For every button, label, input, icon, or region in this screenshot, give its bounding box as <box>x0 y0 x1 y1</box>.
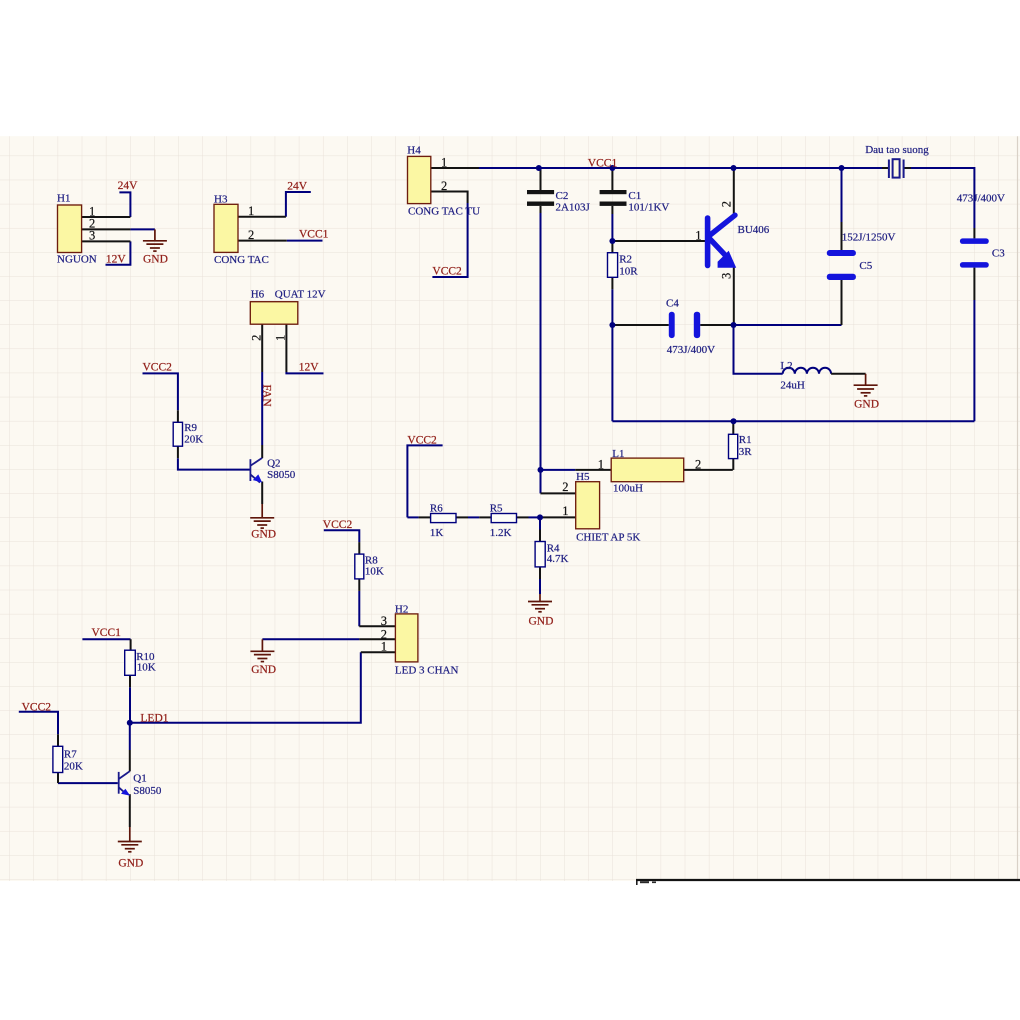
svg-text:H5: H5 <box>576 471 590 483</box>
svg-text:NGUON: NGUON <box>57 254 97 266</box>
svg-text:L1: L1 <box>612 448 624 460</box>
svg-text:H1: H1 <box>57 193 70 205</box>
svg-text:2: 2 <box>562 480 568 494</box>
svg-text:10K: 10K <box>137 662 156 674</box>
svg-text:12V: 12V <box>299 362 320 374</box>
svg-text:GND: GND <box>529 615 554 627</box>
svg-text:C4: C4 <box>666 298 679 310</box>
svg-text:100uH: 100uH <box>613 482 643 494</box>
svg-text:CHIET AP 5K: CHIET AP 5K <box>576 532 640 544</box>
svg-text:24V: 24V <box>287 181 308 193</box>
svg-text:1: 1 <box>562 504 568 518</box>
svg-text:1: 1 <box>248 204 254 218</box>
svg-text:VCC2: VCC2 <box>432 266 462 278</box>
svg-text:H3: H3 <box>214 194 228 206</box>
svg-text:1: 1 <box>273 335 287 341</box>
svg-text:Q1: Q1 <box>133 773 146 785</box>
svg-text:2A103J: 2A103J <box>556 202 591 214</box>
svg-text:2: 2 <box>250 335 264 341</box>
svg-text:BU406: BU406 <box>738 224 770 236</box>
svg-text:R6: R6 <box>430 502 443 514</box>
svg-text:473J/400V: 473J/400V <box>957 192 1005 204</box>
svg-text:GND: GND <box>143 253 168 265</box>
svg-text:C3: C3 <box>992 248 1005 260</box>
svg-text:VCC2: VCC2 <box>323 519 353 531</box>
svg-text:3: 3 <box>89 229 95 243</box>
svg-text:VCC2: VCC2 <box>22 702 52 714</box>
svg-text:VCC2: VCC2 <box>407 435 437 447</box>
svg-text:H4: H4 <box>407 145 421 157</box>
svg-text:H6: H6 <box>251 289 265 301</box>
svg-text:3R: 3R <box>739 446 753 458</box>
svg-text:1K: 1K <box>430 527 444 539</box>
svg-text:10R: 10R <box>619 265 638 277</box>
svg-text:L2: L2 <box>780 360 792 372</box>
svg-text:1: 1 <box>598 457 604 471</box>
svg-text:24uH: 24uH <box>780 380 805 392</box>
svg-text:1.2K: 1.2K <box>490 527 512 539</box>
svg-text:C1: C1 <box>628 190 641 202</box>
svg-text:3: 3 <box>381 614 387 628</box>
svg-text:GND: GND <box>251 664 276 676</box>
svg-text:LED 3 CHAN: LED 3 CHAN <box>395 665 459 677</box>
svg-text:1: 1 <box>381 639 387 653</box>
svg-text:2: 2 <box>720 201 734 207</box>
svg-text:GND: GND <box>854 398 879 410</box>
svg-text:R5: R5 <box>490 502 503 514</box>
svg-text:VCC1: VCC1 <box>92 627 122 639</box>
svg-text:2: 2 <box>695 457 701 471</box>
svg-text:Dau tao suong: Dau tao suong <box>865 144 929 156</box>
svg-text:S8050: S8050 <box>267 469 296 481</box>
svg-text:C5: C5 <box>859 260 872 272</box>
svg-text:2: 2 <box>441 179 447 193</box>
svg-text:VCC1: VCC1 <box>299 229 329 241</box>
svg-text:R2: R2 <box>619 254 632 266</box>
svg-text:1: 1 <box>441 155 447 169</box>
svg-text:101/1KV: 101/1KV <box>628 202 669 214</box>
svg-text:2: 2 <box>248 228 254 242</box>
svg-text:S8050: S8050 <box>133 785 162 797</box>
svg-text:VCC2: VCC2 <box>143 362 173 374</box>
svg-text:20K: 20K <box>64 760 83 772</box>
svg-text:R7: R7 <box>64 749 77 761</box>
svg-text:Q2: Q2 <box>267 458 280 470</box>
svg-text:152J/1250V: 152J/1250V <box>842 232 896 244</box>
svg-text:GND: GND <box>118 857 143 869</box>
svg-text:FAN: FAN <box>261 385 273 408</box>
svg-text:R9: R9 <box>184 422 197 434</box>
svg-text:20K: 20K <box>184 434 203 446</box>
svg-text:24V: 24V <box>118 180 139 192</box>
svg-text:4.7K: 4.7K <box>547 553 569 565</box>
svg-text:473J/400V: 473J/400V <box>667 344 715 356</box>
svg-text:LED1: LED1 <box>140 713 168 725</box>
svg-text:R1: R1 <box>739 434 752 446</box>
svg-text:GND: GND <box>251 529 276 541</box>
svg-text:1: 1 <box>695 228 701 242</box>
svg-text:QUAT 12V: QUAT 12V <box>275 289 326 301</box>
svg-text:H2: H2 <box>395 604 408 616</box>
svg-text:12V: 12V <box>106 253 127 265</box>
svg-text:C2: C2 <box>556 190 569 202</box>
svg-text:CONG TAC: CONG TAC <box>214 254 269 266</box>
svg-text:VCC1: VCC1 <box>588 158 618 170</box>
svg-text:CONG TAC TU: CONG TAC TU <box>408 206 480 218</box>
svg-text:10K: 10K <box>365 565 384 577</box>
svg-text:3: 3 <box>720 273 734 279</box>
